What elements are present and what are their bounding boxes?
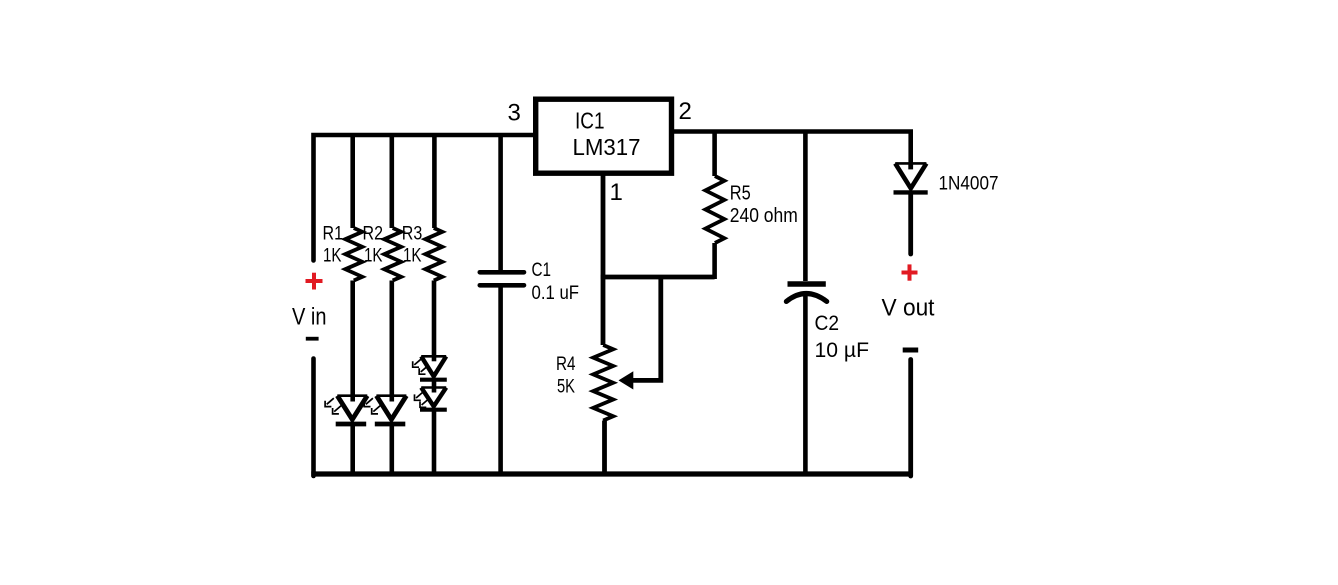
LED D2 (on R2 branch) [364, 396, 406, 424]
resistor R4 (potentiometer body) [593, 345, 613, 421]
wire: R3 to LED D3 [432, 281, 437, 358]
svg-text:2: 2 [679, 98, 692, 125]
svg-text:10 µF: 10 µF [815, 338, 870, 362]
svg-text:R4: R4 [556, 354, 576, 375]
svg-text:1K: 1K [403, 245, 422, 266]
capacitor C1 [480, 272, 524, 285]
wire: R4 top lead from pin 1 node [601, 277, 606, 345]
wire: R5 bottom lead [712, 243, 717, 279]
svg-text:R1: R1 [323, 224, 344, 245]
svg-text:3: 3 [508, 100, 521, 127]
svg-text:R5: R5 [730, 182, 751, 204]
wire: top-right rail from IC pin 2 across and down to diode [672, 132, 911, 165]
svg-text:1K: 1K [364, 245, 383, 266]
wire: C2 bottom lead to bottom rail [803, 294, 808, 477]
wire: C1 top lead [498, 133, 503, 270]
capacitor C2 (polarized) [786, 284, 827, 302]
potentiometer wiper arm of R4 [619, 277, 661, 390]
svg-text:V in: V in [292, 304, 327, 331]
wire: between LED D3 and LED D4 [432, 380, 437, 388]
svg-text:240 ohm: 240 ohm [730, 205, 798, 227]
resistor R5 [705, 176, 724, 243]
svg-text:LM317: LM317 [573, 134, 641, 160]
LED D3 (upper LED on R3 branch) [413, 356, 447, 379]
svg-text:C1: C1 [532, 260, 552, 281]
wire: LED D1 to bottom rail [350, 424, 355, 476]
resistor R2 [384, 228, 401, 281]
LED D1 (on R1 branch) [325, 396, 367, 424]
wire: R4 bottom lead to bottom rail [602, 421, 607, 477]
svg-text:C2: C2 [815, 311, 840, 335]
svg-text:V out: V out [882, 294, 935, 321]
wire: R5 top lead from pin2 rail [712, 130, 717, 177]
wire: IC pin 1 down [601, 176, 606, 278]
wire: pin 1 node horizontal to R5 bottom [601, 275, 715, 280]
wire: R3 top lead [432, 133, 437, 228]
svg-text:5K: 5K [557, 376, 575, 397]
diode 1N4007 [894, 163, 928, 192]
svg-text:R3: R3 [402, 224, 423, 245]
svg-text:R2: R2 [363, 224, 384, 245]
wire: C1 bottom lead to bottom rail [498, 288, 503, 477]
terminal - (V out) [903, 348, 919, 353]
terminal + (V in) [306, 273, 323, 290]
wire: LED D4 to bottom rail [432, 410, 437, 476]
wire: diode to V out + stub [908, 192, 913, 254]
wire: V out - stub to bottom rail [908, 360, 913, 477]
svg-text:0.1 uF: 0.1 uF [532, 283, 580, 304]
LED D4 (lower LED on R3 branch) [415, 388, 447, 410]
svg-text:1N4007: 1N4007 [939, 173, 999, 195]
wire: C2 top lead [803, 130, 808, 282]
wire: R2 top lead [389, 133, 394, 228]
op-amp/regulator IC1 LM317 box [536, 99, 672, 173]
wire: R1 top lead [350, 133, 355, 228]
svg-text:IC1: IC1 [575, 108, 605, 134]
wire: V in - stub down to bottom rail [311, 359, 316, 477]
wire: bottom ground rail [311, 471, 913, 476]
terminal - (V in) [306, 337, 319, 341]
wire: R2 to LED D2 [389, 281, 394, 397]
resistor R1 [345, 228, 362, 281]
wire: R1 to LED D1 [350, 281, 355, 397]
svg-text:1K: 1K [323, 245, 342, 266]
svg-text:1: 1 [610, 179, 623, 206]
terminal + (V out) [902, 264, 918, 280]
wire: top-left rail from V in + stub up and across to IC pin 3 [314, 135, 535, 261]
resistor R3 [425, 228, 442, 281]
wire: LED D2 to bottom rail [389, 424, 394, 476]
